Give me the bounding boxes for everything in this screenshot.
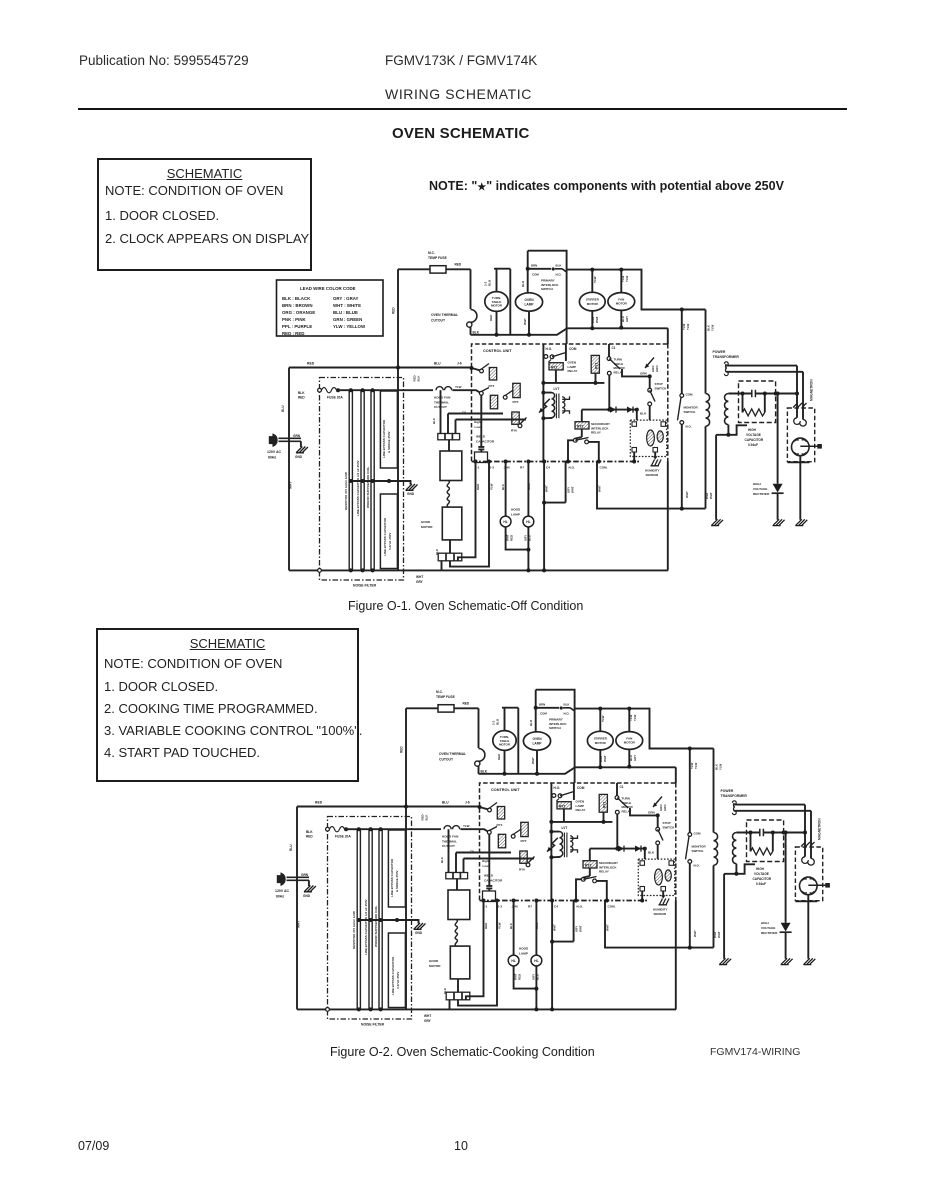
power transformer xyxy=(705,310,803,520)
note box 1 xyxy=(97,158,312,271)
header: publication number xyxy=(79,53,249,68)
svg-text:VOLTAGE: VOLTAGE xyxy=(753,487,768,491)
diode pair line xyxy=(582,407,647,416)
weld capacitor xyxy=(475,435,495,463)
svg-text:RESISTOR 470 kohm 1/2W: RESISTOR 470 kohm 1/2W xyxy=(344,472,348,510)
svg-text:WHT: WHT xyxy=(598,485,602,492)
figure O-2 caption xyxy=(330,1045,595,1059)
svg-text:M.C.: M.C. xyxy=(428,251,435,255)
figure O-2 schematic (reuse of O-1 layout) xyxy=(275,690,830,1027)
wire top right xyxy=(567,270,706,310)
svg-text:YLW : YELLOW: YLW : YELLOW xyxy=(333,324,366,329)
svg-text:BLU: BLU xyxy=(435,549,439,555)
hood motor bottom wiring xyxy=(435,462,494,571)
line bypass capacitor bar xyxy=(356,388,365,572)
svg-text:LEAD WIRE COLOR CODE: LEAD WIRE COLOR CODE xyxy=(300,286,356,291)
svg-text:POWER: POWER xyxy=(713,350,726,354)
svg-text:GRY: GRY xyxy=(625,316,629,322)
monitor switch xyxy=(678,308,699,511)
ground transformer xyxy=(711,519,723,525)
wires High Low to hood connector xyxy=(432,390,526,433)
svg-text:HIGH: HIGH xyxy=(748,428,757,432)
relay RLC xyxy=(462,388,498,444)
svg-text:N.O.: N.O. xyxy=(569,466,576,470)
svg-text:RY2: RY2 xyxy=(577,425,584,429)
control unit dash-dot bottom bus xyxy=(472,461,641,463)
svg-text:RED: RED xyxy=(489,314,493,321)
svg-text:GND: GND xyxy=(407,492,415,496)
svg-text:WHT: WHT xyxy=(545,485,549,492)
line bypass capacitor wide bar lower xyxy=(380,494,397,569)
svg-text:& SURGE 250V: & SURGE 250V xyxy=(387,431,391,453)
svg-text:GRN: GRN xyxy=(655,366,659,372)
footer: date xyxy=(78,1139,109,1153)
svg-text:RELAY: RELAY xyxy=(568,369,578,373)
svg-text:SENSOR: SENSOR xyxy=(646,473,660,477)
svg-text:HOOD: HOOD xyxy=(511,508,521,512)
wire cutout to bus BLK xyxy=(470,327,472,335)
svg-text:YLW: YLW xyxy=(686,323,690,330)
svg-text:RY5: RY5 xyxy=(513,400,519,404)
svg-text:SWITCH: SWITCH xyxy=(684,410,696,414)
high voltage capacitor xyxy=(728,381,797,447)
svg-text:FUSE 20A: FUSE 20A xyxy=(327,396,343,400)
svg-text:WHT: WHT xyxy=(523,318,527,325)
svg-text:WELD: WELD xyxy=(476,435,486,439)
wire bottom bus xyxy=(289,569,668,571)
svg-text:J-3: J-3 xyxy=(490,466,495,470)
svg-text:BLK: BLK xyxy=(556,264,563,268)
ground rectifier xyxy=(773,519,785,525)
secondary interlock relay RY2 xyxy=(575,410,610,437)
oven lamp relay RY1 contacts xyxy=(544,353,566,363)
high voltage rectifier xyxy=(753,392,784,520)
svg-text:BRN : BROWN: BRN : BROWN xyxy=(282,303,313,308)
svg-text:RY2: RY2 xyxy=(595,363,599,369)
svg-text:WHT: WHT xyxy=(416,575,423,579)
svg-text:BLK: BLK xyxy=(417,375,421,382)
wire top RED xyxy=(289,367,471,369)
svg-text:Low: Low xyxy=(475,425,482,429)
humidity sensor xyxy=(645,460,661,478)
svg-text:PNK : PINK: PNK : PINK xyxy=(282,317,306,322)
svg-text:GRN : GREEN: GRN : GREEN xyxy=(333,317,362,322)
svg-text:YLW: YLW xyxy=(625,275,629,282)
svg-text:R7: R7 xyxy=(520,466,524,470)
svg-text:C4: C4 xyxy=(546,466,550,470)
svg-text:GRY: GRY xyxy=(416,580,424,584)
svg-text:MONITOR: MONITOR xyxy=(684,406,699,410)
figure O-1 caption xyxy=(348,599,583,613)
FGMV174-WIRING tag xyxy=(710,1046,800,1058)
noise filter dashed box xyxy=(320,378,404,581)
ground mid GND xyxy=(406,484,418,496)
svg-text:VOLTAGE: VOLTAGE xyxy=(746,433,761,437)
svg-text:MOTOR: MOTOR xyxy=(616,302,628,306)
hood lamp pair xyxy=(500,462,534,573)
primary interlock switch box xyxy=(526,251,567,329)
svg-text:WHT: WHT xyxy=(571,486,575,493)
control unit dashed box xyxy=(472,344,668,462)
ground GRN at plug xyxy=(293,434,308,459)
humidity sensor relay box xyxy=(630,420,666,461)
header: WIRING SCHEMATIC xyxy=(385,86,532,102)
wire lamp bus left xyxy=(471,328,668,335)
wire to thermal cutout xyxy=(470,269,472,309)
svg-text:MOTOR: MOTOR xyxy=(491,304,503,308)
svg-text:RED: RED xyxy=(455,263,462,267)
spark gap arrow xyxy=(640,358,659,376)
svg-text:CAPACITOR: CAPACITOR xyxy=(476,440,495,444)
svg-text:RED: RED xyxy=(298,396,305,400)
svg-text:GRN: GRN xyxy=(640,372,647,376)
svg-text:RED : RED: RED : RED xyxy=(282,331,304,336)
wire H.O. column xyxy=(542,344,544,462)
svg-text:LAMP: LAMP xyxy=(511,512,520,516)
svg-text:TRANSFORMER: TRANSFORMER xyxy=(713,355,740,359)
svg-text:RED: RED xyxy=(392,307,396,314)
magnetron xyxy=(787,366,821,520)
header rule xyxy=(78,108,847,110)
svg-text:BLK: BLK xyxy=(640,412,647,416)
fan motor xyxy=(608,268,635,330)
wire mid tie line xyxy=(349,479,411,485)
svg-text:SWITCH: SWITCH xyxy=(541,287,553,291)
svg-text:OVEN: OVEN xyxy=(524,298,534,302)
svg-text:LINE BYPASS CAPACITOR: LINE BYPASS CAPACITOR xyxy=(383,517,387,556)
svg-text:LINE BYPASS CAPACITOR 1/2 uF 2: LINE BYPASS CAPACITOR 1/2 uF 250V xyxy=(356,460,360,516)
relay RY4 xyxy=(470,364,497,389)
ground magnetron xyxy=(795,519,807,525)
svg-text:BRN: BRN xyxy=(531,264,537,268)
svg-text:YLW: YLW xyxy=(711,324,715,331)
svg-text:WHT: WHT xyxy=(709,492,713,499)
svg-text:120V AC: 120V AC xyxy=(267,450,282,454)
svg-text:BLK : BLACK: BLK : BLACK xyxy=(282,296,311,301)
svg-text:HIGH: HIGH xyxy=(753,482,762,486)
wire COM column to transformer xyxy=(597,462,706,509)
stirrer motor xyxy=(579,268,605,331)
wound suppressor coil bar xyxy=(366,388,375,572)
svg-text:MOTOR: MOTOR xyxy=(587,302,599,306)
hood motor connector top xyxy=(438,434,460,440)
footer: page number xyxy=(454,1139,468,1153)
svg-text:0.94uF: 0.94uF xyxy=(748,443,758,447)
svg-text:BLK: BLK xyxy=(501,483,505,490)
J labels below bus xyxy=(475,466,608,470)
svg-text:LINE BYPASS CAPACITOR: LINE BYPASS CAPACITOR xyxy=(382,419,386,458)
svg-text:NOISE FILTER: NOISE FILTER xyxy=(353,584,377,588)
svg-text:YLW: YLW xyxy=(455,385,462,389)
svg-text:THERMAL: THERMAL xyxy=(434,400,449,404)
svg-text:SWITCH: SWITCH xyxy=(655,386,667,390)
svg-text:BLK: BLK xyxy=(298,391,305,395)
relay RY5 xyxy=(503,383,520,404)
svg-text:WOUND SUPPRESSOR COIL: WOUND SUPPRESSOR COIL xyxy=(366,466,370,508)
svg-text:WHT: WHT xyxy=(685,491,689,498)
header: model numbers xyxy=(385,53,537,68)
svg-text:CONTROL UNIT: CONTROL UNIT xyxy=(483,349,512,353)
svg-text:HUMIDITY: HUMIDITY xyxy=(645,469,660,473)
svg-text:HOOD: HOOD xyxy=(421,520,431,524)
svg-text:LVT: LVT xyxy=(554,387,560,391)
svg-text:HOOD FAN: HOOD FAN xyxy=(434,396,451,400)
wire left panel edge (WHT) xyxy=(288,368,290,571)
secondary interlock switch xyxy=(568,437,599,462)
svg-text:ORG : ORANGE: ORG : ORANGE xyxy=(282,310,315,315)
wire C1 arm to stop column xyxy=(622,369,650,376)
svg-text:High: High xyxy=(474,420,481,424)
svg-text:YLW: YLW xyxy=(490,483,494,490)
fuse 20A xyxy=(318,388,344,573)
svg-text:CUTOUT: CUTOUT xyxy=(431,319,446,323)
svg-text:TEMP FUSE: TEMP FUSE xyxy=(428,256,448,260)
svg-text:PPL : PURPLE: PPL : PURPLE xyxy=(282,324,312,329)
svg-text:N.O.: N.O. xyxy=(556,273,562,277)
svg-text:J-6: J-6 xyxy=(457,362,462,366)
wire plug to panel xyxy=(288,439,289,441)
svg-text:BLU: BLU xyxy=(521,281,525,287)
svg-text:BLU: BLU xyxy=(434,362,441,366)
wire COM drop from bus jog xyxy=(565,328,568,361)
relay coil RY1 xyxy=(549,361,577,383)
svg-text:MOTOR: MOTOR xyxy=(421,525,433,529)
LVT transformer xyxy=(539,387,570,420)
wire fuse row xyxy=(337,389,399,391)
svg-text:BLU: BLU xyxy=(488,280,492,286)
svg-text:HL: HL xyxy=(503,520,507,524)
svg-text:LAMP: LAMP xyxy=(524,303,534,307)
wire top fuse segment xyxy=(398,268,471,270)
svg-text:BLK: BLK xyxy=(432,417,436,424)
svg-text:RECTIFIER: RECTIFIER xyxy=(753,492,770,496)
turntable relay switch C1 xyxy=(607,344,625,410)
relay coil RY2 turntable xyxy=(591,355,599,383)
svg-text:WHT: WHT xyxy=(289,482,293,489)
svg-text:N.O.: N.O. xyxy=(686,425,692,429)
wire relay common rail xyxy=(543,382,604,384)
oven thermal cutout xyxy=(431,310,477,328)
svg-text:RY1: RY1 xyxy=(551,365,558,369)
svg-text:GRN: GRN xyxy=(293,434,301,438)
svg-text:BLU : BLUE: BLU : BLUE xyxy=(333,310,358,315)
svg-text:C1: C1 xyxy=(612,346,616,350)
svg-text:COM.: COM. xyxy=(600,466,608,470)
svg-text:CAPACITOR: CAPACITOR xyxy=(745,438,764,442)
wire right boundary xyxy=(667,328,669,570)
svg-text:RELAY: RELAY xyxy=(591,431,601,435)
hood motor xyxy=(421,440,462,561)
svg-text:WHT : WHITE: WHT : WHITE xyxy=(333,303,361,308)
svg-text:0.47uF 250V: 0.47uF 250V xyxy=(388,533,392,550)
svg-text:GND: GND xyxy=(295,455,303,459)
svg-text:J-40: J-40 xyxy=(504,466,510,470)
svg-text:OVEN THERMAL: OVEN THERMAL xyxy=(431,313,458,317)
svg-text:MAGNETRON: MAGNETRON xyxy=(810,379,814,401)
oven lamp xyxy=(515,251,542,337)
svg-text:BLU: BLU xyxy=(281,405,285,412)
wire diode junction to relay box xyxy=(636,410,638,421)
junction dots on control bus xyxy=(474,460,637,464)
fuse M.C. TEMP xyxy=(428,251,462,273)
svg-text:COM: COM xyxy=(686,393,694,397)
AC plug 120V xyxy=(267,435,301,460)
svg-text:ORG: ORG xyxy=(527,483,531,490)
svg-text:YLW: YLW xyxy=(593,276,597,283)
svg-text:H.O.: H.O. xyxy=(546,347,553,351)
svg-text:COM: COM xyxy=(532,273,539,277)
svg-text:RED: RED xyxy=(476,483,480,490)
svg-text:60Hz: 60Hz xyxy=(268,456,276,460)
svg-text:RY4: RY4 xyxy=(489,384,495,388)
svg-text:RY6: RY6 xyxy=(511,429,517,433)
lead wire color code box (fig O-1 only) xyxy=(277,280,384,336)
svg-text:WHT: WHT xyxy=(595,316,599,323)
wire WHT column pair below bus xyxy=(542,462,574,573)
svg-text:COM: COM xyxy=(569,347,577,351)
line bypass capacitor wide bar upper xyxy=(380,391,397,468)
figure O-1 schematic xyxy=(267,251,822,588)
svg-text:GRY : GRAY: GRY : GRAY xyxy=(333,296,359,301)
svg-text:BLU: BLU xyxy=(528,535,532,541)
hood fan thermal cutout xyxy=(398,375,481,409)
resistor 470kohm bar xyxy=(344,388,353,572)
turntable motor M1 xyxy=(484,269,511,337)
title: OVEN SCHEMATIC xyxy=(392,125,530,142)
svg-text:RED: RED xyxy=(510,535,514,541)
svg-text:HL: HL xyxy=(526,520,530,524)
stop switch xyxy=(648,376,667,420)
note: 250V warning xyxy=(429,179,784,193)
node main vertical V1 xyxy=(397,269,399,570)
note box 2 xyxy=(96,628,359,782)
relay RY6 xyxy=(511,412,527,433)
svg-text:RED: RED xyxy=(307,362,315,366)
